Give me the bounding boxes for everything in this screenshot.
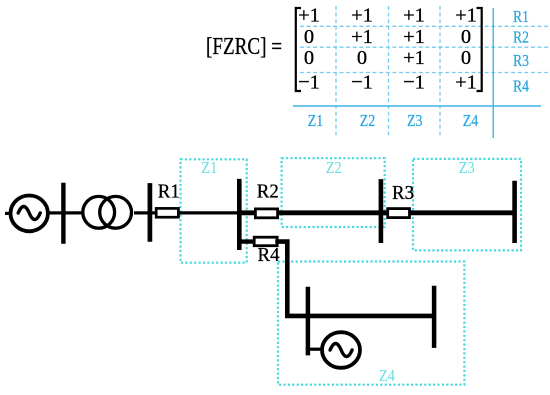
svg-text:+1: +1 — [403, 26, 425, 48]
generator G1 sine wave — [18, 207, 40, 220]
wire R4 elbow down to lower feeder — [275, 242, 434, 316]
wire G1 to bus1 — [50, 211, 63, 214]
svg-text:[FZRC] =: [FZRC] = — [206, 34, 282, 60]
svg-text:Z3: Z3 — [407, 111, 423, 130]
svg-text:+1: +1 — [351, 26, 373, 48]
generator G2 sine wave — [330, 344, 352, 357]
svg-text:0: 0 — [461, 26, 471, 48]
svg-text:−1: −1 — [298, 72, 320, 94]
svg-text:+1: +1 — [403, 5, 425, 27]
svg-text:Z4: Z4 — [463, 111, 479, 130]
transformer T1 primary winding — [83, 196, 115, 228]
matrix solid vertical rule left of R labels — [492, 8, 494, 138]
svg-text:R2: R2 — [513, 28, 529, 47]
svg-text:Z1: Z1 — [201, 158, 217, 177]
matrix grid dashed column separator 3 — [439, 6, 441, 136]
relay R4 — [254, 237, 277, 246]
bus 3 — [237, 179, 242, 250]
svg-text:+1: +1 — [403, 47, 425, 69]
relay R3 — [388, 209, 410, 218]
zone Z4 box — [278, 262, 464, 385]
wire transformer to bus2 — [134, 211, 149, 214]
matrix grid dashed column separator 1 — [335, 6, 337, 136]
svg-text:+1: +1 — [455, 72, 477, 94]
wire busA to generator G2 — [308, 348, 322, 351]
svg-text:0: 0 — [304, 26, 314, 48]
bus 1 — [61, 183, 65, 244]
matrix grid dashed row separator 1 — [300, 25, 549, 27]
svg-text:R1: R1 — [158, 182, 180, 203]
generator G1 circle — [11, 196, 48, 232]
matrix grid dashed column separator 2 — [388, 6, 390, 136]
bus A lower left — [306, 287, 311, 356]
relay R2 — [255, 209, 277, 218]
matrix left bracket — [296, 8, 301, 91]
wire bus3 to bus4 — [239, 210, 380, 215]
relay R1 — [156, 208, 178, 217]
wire bus2 to bus3 — [150, 211, 237, 214]
svg-text:Z4: Z4 — [379, 366, 395, 385]
svg-text:R3: R3 — [392, 183, 414, 204]
svg-text:R4: R4 — [513, 77, 529, 96]
svg-text:0: 0 — [304, 47, 314, 69]
zone Z2 box — [282, 158, 385, 227]
bus 4 — [379, 179, 384, 243]
wire bus4 to bus5 — [382, 210, 513, 215]
wire bus1 to transformer — [63, 211, 82, 214]
svg-text:0: 0 — [461, 47, 471, 69]
svg-text:−1: −1 — [403, 72, 425, 94]
svg-text:R4: R4 — [258, 245, 280, 266]
zone Z1 box — [181, 159, 247, 262]
svg-text:Z2: Z2 — [360, 111, 376, 130]
svg-text:0: 0 — [357, 47, 367, 69]
zone Z3 box — [413, 159, 521, 251]
svg-text:+1: +1 — [298, 5, 320, 27]
svg-text:+1: +1 — [351, 5, 373, 27]
svg-text:−1: −1 — [351, 72, 373, 94]
svg-text:Z1: Z1 — [308, 111, 324, 130]
bus 5 — [512, 181, 517, 243]
svg-text:R1: R1 — [513, 7, 529, 26]
matrix solid horizontal rule above Z labels — [293, 105, 541, 107]
stub wire left of G1 — [5, 212, 12, 215]
matrix grid dashed row separator 2 — [300, 46, 549, 48]
generator G2 circle — [322, 332, 360, 368]
bus B lower right — [432, 286, 437, 348]
svg-text:R2: R2 — [257, 181, 279, 202]
matrix grid dashed row separator 3 — [300, 72, 549, 74]
matrix right bracket — [477, 8, 482, 91]
svg-text:R3: R3 — [513, 51, 529, 70]
wire bus3 to relay R4 — [239, 239, 256, 243]
svg-text:Z2: Z2 — [326, 158, 342, 177]
transformer T1 secondary winding — [100, 196, 132, 228]
bus 2 — [148, 183, 153, 242]
svg-text:+1: +1 — [455, 5, 477, 27]
svg-text:Z3: Z3 — [459, 158, 475, 177]
